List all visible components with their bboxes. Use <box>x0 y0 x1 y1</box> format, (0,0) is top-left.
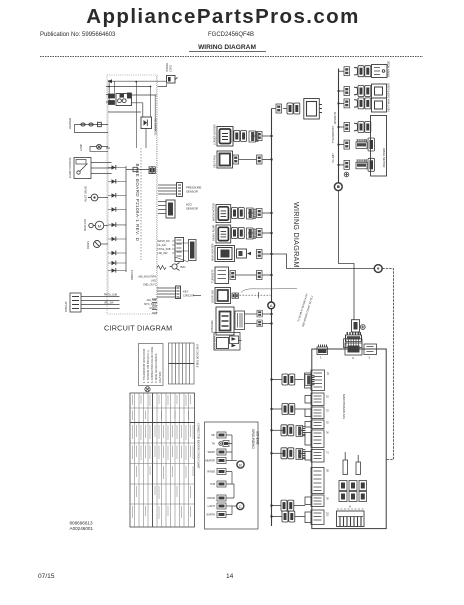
branch4 comb <box>296 449 306 460</box>
row8 bus connector a <box>257 310 262 317</box>
row6 ground symbol <box>344 172 349 177</box>
row3 comb <box>247 208 257 219</box>
drain motor M2 <box>94 241 101 248</box>
ui stub labels <box>158 240 171 255</box>
row4 clip <box>354 123 358 130</box>
branch3 conn pair <box>281 425 294 436</box>
board inner column wire <box>140 148 142 260</box>
sub node D circle <box>237 461 244 468</box>
wire relay to right <box>132 95 157 103</box>
display connector CN7 <box>70 293 81 312</box>
big table frame <box>130 393 195 527</box>
svg-text:CIRCUIT: CIRCUIT <box>183 294 195 298</box>
svg-text:J9: J9 <box>326 497 330 500</box>
svg-text:FGCD2456QF4B: FGCD2456QF4B <box>208 32 254 38</box>
svg-text:PWCK_SUB: PWCK_SUB <box>104 295 117 297</box>
row6 wire <box>236 274 257 276</box>
row3 pair <box>358 98 371 109</box>
heater element E1 <box>81 123 85 126</box>
stackC inner <box>314 410 322 416</box>
svg-text:SCHEME: SCHEME <box>256 431 260 445</box>
node B circle <box>334 183 342 191</box>
row3 box <box>372 98 387 112</box>
row6 conn <box>344 160 350 169</box>
svg-text:1: 1 <box>320 356 322 360</box>
svg-text:DOOR SW: DOOR SW <box>211 290 215 303</box>
row7 conn <box>232 293 239 298</box>
svg-text:M: M <box>98 224 101 229</box>
drain wire <box>101 243 109 245</box>
row4 wire to bus <box>262 232 272 234</box>
svg-text:J5: J5 <box>326 421 330 424</box>
svg-text:VENT FAN: VENT FAN <box>213 155 217 168</box>
stackC left conn <box>305 409 311 417</box>
wire zd feed <box>142 103 144 117</box>
svg-text:808696613: 808696613 <box>70 521 93 526</box>
ground circle <box>360 325 365 330</box>
resistor R2 <box>109 101 115 105</box>
row4 bus connector <box>257 229 263 238</box>
pressure sensor wires <box>157 183 202 270</box>
svg-text:DRAIN: DRAIN <box>86 241 90 249</box>
conn1 inner <box>319 345 327 348</box>
inline box <box>133 167 137 171</box>
row5 conn <box>344 140 350 149</box>
row7 tick <box>257 292 259 298</box>
row2 wire to bus <box>262 159 272 161</box>
branch5 wire2 <box>294 505 305 507</box>
notes text lines <box>143 346 162 383</box>
svg-text:GND1: GND1 <box>149 307 156 310</box>
board left stack H <box>305 495 330 507</box>
svg-text:LIN1: LIN1 <box>151 280 157 283</box>
wire node C to board <box>382 269 393 460</box>
right stack row6 <box>332 153 375 177</box>
row6 comb <box>356 159 367 169</box>
svg-text:TUB: TUB <box>210 483 215 486</box>
svg-text:UI BOARD: UI BOARD <box>210 320 214 333</box>
rail diode marks <box>112 165 116 272</box>
ui link wires <box>175 243 189 262</box>
wire power horiz <box>108 80 167 82</box>
heater loop wire <box>75 125 109 133</box>
svg-text:DISPENSER: DISPENSER <box>387 83 391 98</box>
board top connector C <box>345 343 362 360</box>
stackB inner <box>314 396 322 402</box>
wire row5 long run <box>262 254 374 269</box>
branch2 wire2 <box>295 408 305 410</box>
bus branch wire 5 <box>272 500 306 511</box>
row3 wire to bus <box>262 212 272 214</box>
svg-text:WASH MOTOR: WASH MOTOR <box>382 148 386 167</box>
svg-text:J4: J4 <box>326 372 330 375</box>
svg-text:BASE BOARD P2108A-1 REV. D: BASE BOARD P2108A-1 REV. D <box>135 164 140 242</box>
door switch inner <box>217 338 229 349</box>
row3 conn <box>344 99 350 108</box>
bus branch wire 6 <box>272 511 306 522</box>
svg-text:J6: J6 <box>326 431 330 434</box>
board bottom connector strip <box>337 505 365 527</box>
svg-text:CORD: CORD <box>170 65 173 72</box>
svg-text:DISPLAY: DISPLAY <box>64 301 68 312</box>
row6 bus dot <box>337 164 339 166</box>
node dot j2 <box>108 86 110 88</box>
key circuit wires <box>157 288 176 297</box>
svg-text:DOOR: DOOR <box>208 497 216 500</box>
svg-text:UPL_SW: UPL_SW <box>104 303 114 305</box>
heater element E2 <box>89 123 93 126</box>
wire below node B <box>339 191 355 320</box>
svg-text:MAIN HEATER: MAIN HEATER <box>211 243 215 261</box>
transformer winding b <box>127 93 132 99</box>
svg-text:FIL_EN: FIL_EN <box>158 244 166 247</box>
double connector top right <box>149 167 155 174</box>
svg-text:VENT WAX: VENT WAX <box>387 98 391 112</box>
svg-text:J3: J3 <box>326 409 330 412</box>
stackF inner <box>314 453 322 459</box>
branch2 conn pair <box>282 404 295 415</box>
gravity switch S1 <box>74 158 91 179</box>
svg-text:LIGHT: LIGHT <box>208 505 216 508</box>
pressure switch connector <box>276 104 282 113</box>
middle row8 display assembly <box>210 307 272 335</box>
bus branch wire 3 <box>272 425 306 437</box>
bus junction dots <box>270 135 272 518</box>
svg-text:C: C <box>352 356 355 360</box>
lamp LP1 <box>97 144 102 149</box>
sub node E circle <box>237 502 244 509</box>
collector row stubs <box>108 168 126 271</box>
wire left rail <box>107 80 109 294</box>
door switch box <box>214 333 242 351</box>
stackD inner <box>314 423 322 426</box>
svg-text:120V/60HZ: 120V/60HZ <box>334 111 337 124</box>
svg-text:A: A <box>349 505 351 509</box>
row2 pair <box>358 86 371 97</box>
wire inner vertical <box>154 95 156 131</box>
row5 component <box>237 249 252 258</box>
svg-text:A01_SW: A01_SW <box>147 299 157 302</box>
bus branch wire 2 <box>272 404 306 415</box>
svg-text:LSK_ISD: LSK_ISD <box>158 252 168 255</box>
row6 conn <box>230 271 236 280</box>
valve wire <box>98 197 108 199</box>
svg-text:MAIN FAN: MAIN FAN <box>83 219 87 231</box>
svg-text:LOWER HEATER: LOWER HEATER <box>213 124 217 145</box>
board connector group row1 <box>339 481 367 491</box>
svg-text:2. SENSOR P/N 5304 (FULL): 2. SENSOR P/N 5304 (FULL) <box>147 350 150 383</box>
row5 comb <box>356 139 367 149</box>
stackI inner <box>314 513 322 520</box>
header separator dotted line <box>40 56 423 58</box>
row1 clip <box>354 68 358 75</box>
row4 bus dot <box>337 126 339 128</box>
ui extra connector <box>189 240 197 261</box>
row7 dashed wire <box>240 294 271 296</box>
node dot j1 <box>108 80 110 82</box>
row2 conn <box>344 87 350 96</box>
sub row wires <box>226 435 237 515</box>
board left stack A <box>305 370 331 391</box>
small table midline <box>169 363 195 365</box>
fan motor M1 <box>89 221 104 230</box>
svg-text:WASH_ON: WASH_ON <box>158 240 170 243</box>
svg-text:DRAIN PUMP: DRAIN PUMP <box>212 224 216 241</box>
svg-text:B: B <box>239 463 242 468</box>
right bus wire <box>338 69 340 183</box>
sub row labels and connectors <box>205 434 215 517</box>
row6 bus connector <box>257 271 263 280</box>
row3 wire <box>248 212 257 214</box>
svg-text:HI-LIMIT: HI-LIMIT <box>332 153 335 163</box>
small table columns <box>172 343 190 384</box>
svg-text:2: 2 <box>369 356 371 360</box>
ui connector <box>175 238 184 262</box>
svg-text:SENSOR: SENSOR <box>186 190 198 194</box>
svg-text:A00246001: A00246001 <box>70 526 94 531</box>
circled symbol <box>145 387 150 392</box>
strip inner line <box>338 516 363 518</box>
gravity switch wires <box>91 163 112 174</box>
fuse inner <box>354 322 358 330</box>
svg-text:GND_OUT1: GND_OUT1 <box>143 284 157 287</box>
stackE left conn <box>305 433 311 446</box>
door switch conn <box>230 336 239 347</box>
stackE inner <box>314 433 322 444</box>
power cord connector <box>167 76 178 84</box>
svg-text:MTC_SW1: MTC_SW1 <box>144 303 156 306</box>
left bus wire <box>271 109 273 527</box>
svg-text:HEATER: HEATER <box>205 460 215 463</box>
row8 conn stack <box>235 311 245 330</box>
rail diode bars <box>115 165 117 273</box>
stackD left conn <box>305 422 311 428</box>
branch6 conn pair <box>282 511 295 522</box>
row2 clip <box>354 87 358 94</box>
title underline <box>189 51 266 53</box>
row1 pair <box>358 66 371 77</box>
zener box ZD1 <box>141 117 152 129</box>
rail ticks <box>106 87 110 148</box>
row3 bus connector <box>257 209 263 218</box>
board left stack C <box>305 407 330 419</box>
svg-text:WIRING DIAGRAM: WIRING DIAGRAM <box>198 44 256 51</box>
ui connector stubs <box>172 241 175 253</box>
svg-text:4. WIRE GA REFERENCE: 4. WIRE GA REFERENCE <box>155 353 158 383</box>
svg-text:CIRCUIT DIAGRAM: CIRCUIT DIAGRAM <box>104 324 172 333</box>
stackA left conn <box>305 373 312 388</box>
row8 bus connector b <box>257 320 262 327</box>
key circuit stub wire <box>193 295 201 297</box>
svg-text:MAIN BOARD A03: MAIN BOARD A03 <box>342 394 346 419</box>
pressure sensor connector CN9 <box>177 183 183 197</box>
row3 clip <box>354 100 358 107</box>
pressure switch assembly wire <box>272 99 322 120</box>
svg-text:INLET VALVE: INLET VALVE <box>84 186 88 202</box>
transistor Q1 <box>170 263 187 271</box>
board top connector 1 <box>317 345 328 360</box>
board connector group row2 <box>339 492 367 502</box>
right stack row2 <box>337 83 390 98</box>
svg-text:AC CONTROL: AC CONTROL <box>154 119 158 137</box>
big table columns <box>135 393 189 527</box>
node C inner <box>377 267 379 269</box>
conn2 inner <box>367 347 374 352</box>
node A circle <box>268 302 275 309</box>
branch3 comb <box>296 426 306 437</box>
resistor zigzag <box>157 266 166 270</box>
svg-text:CAUTION: CAUTION <box>159 372 162 383</box>
svg-text:J8: J8 <box>326 469 330 472</box>
svg-text:FLOW CONTROL: FLOW CONTROL <box>68 157 72 178</box>
branch5 conn pair <box>281 500 294 511</box>
sub panel box <box>205 422 260 529</box>
node C circle <box>374 265 382 273</box>
svg-text:LINE COLOR TABLE: LINE COLOR TABLE <box>196 344 199 368</box>
row2 wire <box>239 159 257 161</box>
svg-text:HEATER: HEATER <box>68 118 72 129</box>
middle row4 <box>212 224 272 242</box>
row4 wire <box>248 232 257 234</box>
stackA comb <box>305 375 315 386</box>
row5 bus dot <box>337 144 339 146</box>
stackH inner <box>314 498 322 504</box>
svg-text:A09_IN/OUT/PH: A09_IN/OUT/PH <box>138 276 156 279</box>
row4 comb <box>247 228 257 239</box>
middle row2 vent <box>213 151 272 168</box>
middle row1 lower heater <box>213 124 272 146</box>
relay K1 <box>116 94 132 106</box>
middle row5 heater relay <box>211 243 263 261</box>
transformer winding a <box>120 94 125 98</box>
board fuse F1 <box>343 452 348 475</box>
multipin above C <box>344 339 363 348</box>
main control board outline <box>312 349 386 529</box>
svg-text:14: 14 <box>226 573 234 580</box>
svg-text:AppliancePartsPros.com: AppliancePartsPros.com <box>86 5 359 28</box>
row3 conn stack <box>232 208 245 219</box>
diode D1 <box>106 79 112 83</box>
svg-text:WASH: WASH <box>208 451 216 454</box>
display connector wires <box>81 297 120 309</box>
row1 box thermostat <box>372 65 388 78</box>
branch1 conn pair <box>282 374 295 385</box>
fan wire <box>104 225 108 227</box>
strip teeth <box>340 517 361 527</box>
row4 pair <box>358 122 371 133</box>
board left stack F <box>305 450 330 463</box>
pressure switch pair <box>287 103 300 114</box>
collector line <box>125 166 127 272</box>
comb above C <box>346 332 362 342</box>
svg-text:J10: J10 <box>326 512 330 517</box>
wire power return <box>158 84 167 87</box>
big table rows <box>130 408 195 504</box>
svg-text:WIRING DIAGRAM: WIRING DIAGRAM <box>292 202 301 268</box>
key circuit connector CN8 <box>176 286 181 299</box>
heater thermal fuse <box>98 122 102 126</box>
board fuse F2 <box>356 455 361 475</box>
lamp wire loop <box>90 147 108 152</box>
big table cell text hatching <box>133 395 194 519</box>
door switch stub <box>239 340 242 342</box>
svg-text:07/15: 07/15 <box>38 573 55 580</box>
wire top edge <box>108 86 151 88</box>
base board outline <box>107 75 156 314</box>
svg-text:A: A <box>270 303 273 308</box>
svg-text:TH: TH <box>212 443 216 446</box>
fuse F2 lead <box>357 455 359 462</box>
svg-text:P2108A: P2108A <box>130 270 134 280</box>
branch6 wire2 <box>295 516 305 518</box>
svg-text:MF: MF <box>211 434 215 437</box>
pressure switch body <box>304 99 322 120</box>
svg-text:EARTH: EARTH <box>207 514 216 517</box>
wire mid horiz <box>108 111 141 113</box>
branch4 wire2 <box>301 452 305 454</box>
stackF left conn <box>305 452 311 461</box>
row2 box <box>372 84 387 98</box>
row2 conn <box>233 155 239 164</box>
wire zd down <box>145 129 147 149</box>
right stack row3 <box>337 98 390 112</box>
sub row2 ground dot <box>219 442 223 446</box>
row8 wires to bus <box>262 314 271 324</box>
row4 conn <box>344 123 350 132</box>
row1 conn <box>344 67 350 76</box>
branch3 wire2 <box>301 429 305 431</box>
small table <box>169 343 195 384</box>
wire power vertical <box>108 81 110 104</box>
notes box <box>139 344 164 386</box>
svg-text:SENSOR: SENSOR <box>186 207 198 211</box>
row2 bus connector <box>257 155 263 164</box>
row1 wire <box>251 135 257 137</box>
svg-text:LAMP: LAMP <box>79 144 83 151</box>
board bottom pin ticks <box>152 299 157 313</box>
big table bold column <box>152 393 154 527</box>
right stack row5 <box>332 126 375 151</box>
right stack row1 <box>339 61 391 78</box>
svg-text:3. CONNECTOR COLOR CODE: 3. CONNECTOR COLOR CODE <box>151 346 154 383</box>
row8 wires <box>245 314 257 324</box>
stackG inner <box>314 471 322 491</box>
svg-text:C: C <box>239 504 242 509</box>
inlet valve V1 <box>88 194 98 201</box>
svg-text:J7: J7 <box>326 451 330 454</box>
connC inner <box>348 346 360 353</box>
collector top wire <box>126 169 149 171</box>
board top connector 2 <box>364 344 377 360</box>
board left stack E <box>305 430 330 448</box>
row1 comb <box>249 131 259 142</box>
h2o module box <box>158 202 166 214</box>
svg-text:BZ1: BZ1 <box>181 265 187 269</box>
board bottom dashed line <box>337 508 364 510</box>
row6 wire to bus <box>262 274 272 276</box>
stackA inner <box>314 373 323 387</box>
middle row7 <box>211 288 298 304</box>
svg-text:WASH MOTOR: WASH MOTOR <box>212 203 216 221</box>
stackB left conn <box>305 396 311 404</box>
row2 bus dot <box>337 90 339 92</box>
bus branch wire 4 <box>272 448 306 460</box>
branch4 conn pair <box>281 448 294 459</box>
fuse filter component <box>344 320 366 348</box>
branch1 wire2 <box>295 379 304 381</box>
svg-text:THERMOSTAT: THERMOSTAT <box>332 126 335 143</box>
right stack big box rows4-6 <box>371 116 387 177</box>
